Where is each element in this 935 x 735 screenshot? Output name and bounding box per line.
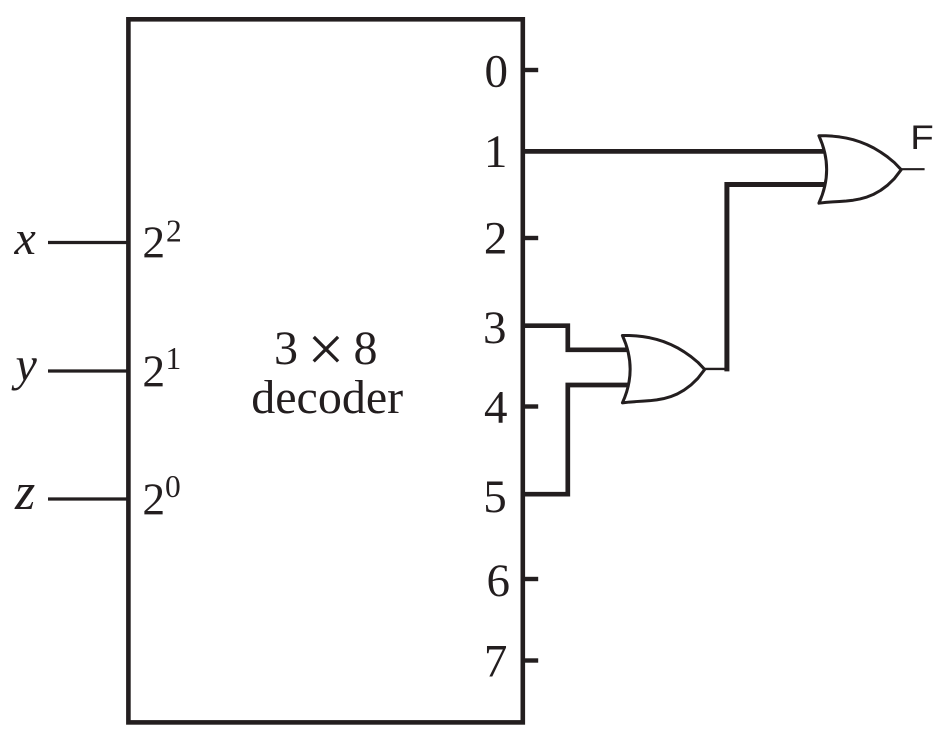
svg-text:3: 3 (483, 302, 507, 354)
output stub 2 (523, 236, 538, 240)
pin label 2^0 (142, 469, 180, 525)
svg-text:2: 2 (142, 216, 165, 267)
svg-text:7: 7 (484, 636, 508, 688)
wire OR1 output up to OR2 bottom input (727, 185, 830, 372)
svg-text:1: 1 (484, 126, 508, 178)
svg-text:x: x (14, 212, 36, 265)
wire output 1 to OR2 top input (523, 149, 830, 154)
svg-text:8: 8 (354, 322, 378, 375)
or-gate G2 (819, 136, 901, 203)
svg-text:z: z (14, 464, 35, 521)
wire input z (48, 497, 130, 500)
pin label 2^1 (142, 341, 181, 396)
output label F (910, 118, 934, 157)
wire input y (48, 369, 130, 372)
svg-text:0: 0 (484, 46, 508, 98)
wire output 5 to OR1 bottom input (523, 385, 634, 494)
or-gate G1 (622, 335, 704, 402)
output stub 4 (523, 404, 538, 408)
output stub 0 (523, 68, 538, 72)
svg-text:4: 4 (484, 382, 508, 434)
wire output 3 to OR1 top input (523, 326, 634, 350)
svg-text:y: y (11, 339, 38, 392)
svg-text:2: 2 (484, 213, 508, 265)
svg-text:2: 2 (142, 346, 165, 397)
wire OR1 output (thin) (705, 368, 727, 370)
pin label 2^2 (142, 214, 181, 268)
svg-text:2: 2 (166, 214, 182, 249)
svg-text:6: 6 (487, 555, 511, 607)
svg-text:decoder: decoder (251, 371, 403, 424)
wire OR2 output F (thin) (901, 168, 924, 170)
decoder U1 title "3 x 8 decoder" (251, 314, 403, 424)
svg-text:2: 2 (142, 474, 165, 525)
svg-text:0: 0 (165, 469, 181, 504)
svg-text:5: 5 (483, 471, 507, 523)
svg-text:1: 1 (166, 341, 182, 376)
svg-text:3: 3 (274, 322, 298, 375)
decoder U1 box (128, 19, 522, 722)
svg-text:F: F (910, 118, 934, 157)
wire input x (48, 241, 130, 244)
output stub 7 (523, 658, 538, 662)
output stub 6 (523, 577, 538, 581)
